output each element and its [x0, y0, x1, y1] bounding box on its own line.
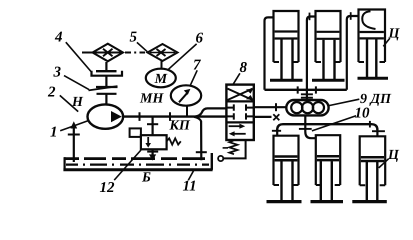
svg-text:Ц: Ц — [387, 148, 400, 163]
svg-text:4: 4 — [54, 30, 63, 46]
svg-text:9 ДП: 9 ДП — [360, 92, 392, 107]
svg-text:Ц: Ц — [388, 27, 401, 42]
svg-text:КП: КП — [169, 119, 191, 134]
svg-text:3: 3 — [53, 65, 62, 81]
svg-text:МН: МН — [139, 92, 164, 107]
svg-text:8: 8 — [240, 60, 248, 76]
svg-text:2: 2 — [47, 85, 56, 101]
svg-text:М: М — [154, 72, 168, 87]
svg-text:5: 5 — [130, 30, 138, 46]
svg-text:Н: Н — [71, 95, 84, 110]
svg-text:6: 6 — [196, 31, 204, 47]
svg-text:7: 7 — [193, 58, 201, 74]
svg-text:Б: Б — [141, 171, 151, 186]
svg-text:10: 10 — [355, 106, 371, 122]
svg-text:1: 1 — [50, 125, 58, 141]
svg-text:12: 12 — [100, 180, 116, 196]
svg-text:11: 11 — [183, 179, 197, 195]
